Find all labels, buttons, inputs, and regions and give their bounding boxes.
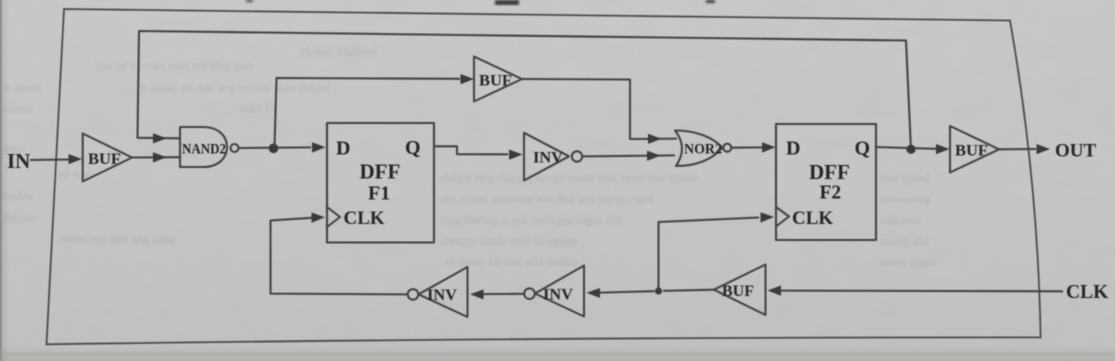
svg-text:ni delac eb nac siht hcihw: ni delac eb nac siht hcihw [445, 254, 580, 269]
arrowhead into F1 D [312, 142, 326, 152]
wire F2 Q output to BUF3 input [876, 147, 936, 149]
svg-text:F2: F2 [820, 183, 842, 204]
wire CLK input to BUF4 [781, 290, 1063, 293]
wire F1 Q output to INV1 input [434, 146, 508, 154]
wire INV3 output left and up to F1 CLK [271, 218, 408, 295]
svg-text:den gised: den gised [880, 170, 930, 185]
inverter INV2 (clock chain, points left) [524, 266, 584, 317]
node IN label [7, 149, 30, 173]
svg-text:INV: INV [543, 287, 573, 304]
svg-text:eb nac sngised: eb nac sngised [300, 43, 376, 58]
wire node A up to BUF2 input [275, 78, 461, 147]
wire IN to BUF1 input [30, 158, 70, 161]
svg-text:INV: INV [533, 150, 563, 167]
wire node C up to F2 CLK [659, 218, 760, 292]
svg-text:eht ni del aitnetop eht dna se: eht ni del aitnetop eht dna sen lepip ci… [440, 191, 654, 206]
arrowhead into INV2 [587, 288, 601, 298]
svg-text:INV: INV [427, 287, 457, 304]
svg-text:BUF: BUF [722, 283, 754, 300]
arrowhead into NOR2 input A [648, 134, 662, 144]
pin CLK wedge of F1 [327, 207, 340, 227]
svg-text:BUF: BUF [88, 151, 121, 168]
dark page smudges at top edge (decorative) [246, 0, 715, 5]
flip-flop DFF F2 [776, 124, 876, 240]
svg-text:krow cigol: krow cigol [880, 254, 936, 269]
svg-text:BUF: BUF [479, 73, 512, 90]
wire feedback net: node B (F2 Q) up and across top to NAND2 input A [138, 31, 912, 150]
svg-text:ylla itnetop a sah enilepip ci: ylla itnetop a sah enilepip cigol eht [440, 212, 622, 227]
inverter INV3 (clock chain, points left) [408, 267, 468, 317]
wire BUF1 output to NAND2 input B [132, 156, 180, 158]
arrowhead into NOR2 input B [647, 151, 661, 161]
arrowhead into F2 D [762, 142, 776, 152]
svg-text:IN: IN [7, 149, 30, 173]
svg-text:Q: Q [855, 138, 871, 160]
buffer BUF3 (output buffer) [950, 126, 999, 173]
arrowhead into BUF1 [69, 154, 83, 164]
svg-text:laitini: laitini [2, 101, 33, 116]
arrowhead into F1 CLK [312, 213, 326, 223]
wire INV2 output to INV3 input [483, 293, 524, 295]
svg-text:D: D [786, 138, 800, 160]
svg-text:detare neg slangis kcolc eseht: detare neg slangis kcolc eseht taht hcus… [440, 170, 698, 185]
svg-text:detcen: detcen [2, 210, 36, 225]
node CLK label (right side) [1066, 282, 1109, 303]
arrowhead into BUF3 [936, 144, 950, 154]
svg-text:esahp eht: esahp eht [880, 233, 929, 248]
junction node C (clock branch) [655, 287, 662, 294]
arrowhead into BUF4 [768, 286, 782, 296]
arrowhead into NAND2 input B [153, 152, 167, 162]
svg-text:slangis kcolc owt fo esahp: slangis kcolc owt fo esahp [440, 233, 577, 248]
arrowhead into F2 CLK [761, 212, 775, 222]
wire NOR2 output to F2 D [732, 146, 763, 148]
wire BUF4 output to node C [663, 290, 714, 291]
arrowhead into BUF2 [461, 74, 475, 84]
svg-text:erehw: erehw [2, 188, 34, 203]
gate NAND2 [180, 127, 239, 167]
svg-text:onim era taht seg nahc: onim era taht seg nahc [60, 231, 177, 246]
svg-text:detareneg: detareneg [880, 191, 931, 206]
gate NOR2 [675, 131, 731, 167]
svg-text:OUT: OUT [1055, 141, 1097, 162]
buffer BUF2 (top feed-forward buffer) [474, 57, 522, 102]
svg-text:Q: Q [405, 137, 421, 159]
buffer BUF4 (clock buffer, points left) [714, 265, 766, 316]
wire NAND2 output to F1 D [239, 146, 312, 149]
faint bleed-through text from reverse page (decorative) [2, 43, 936, 269]
node OUT label [1055, 141, 1097, 162]
wire BUF2 output to NOR2 input A [522, 79, 677, 139]
svg-text:CLK: CLK [792, 208, 833, 229]
svg-text:F1: F1 [368, 183, 390, 205]
svg-text:sdet fo: sdet fo [240, 100, 275, 115]
arrowhead at OUT [1037, 144, 1051, 154]
svg-text:BUF: BUF [955, 143, 988, 160]
wire node C to INV2 input [600, 291, 655, 292]
svg-text:sah enil: sah enil [880, 212, 920, 227]
arrowhead into INV3 [470, 289, 484, 299]
svg-text:DFF: DFF [360, 160, 401, 184]
junction node A (NAND2 output) [269, 144, 279, 154]
junction node B (F2 Q output) [906, 145, 915, 154]
wire BUF3 output to OUT [999, 148, 1036, 150]
buffer BUF1 (input buffer) [83, 134, 132, 182]
svg-text:it delac eb nac sng hcihw slan: it delac eb nac sng hcihw slan detare [140, 80, 330, 95]
arrowhead into NAND2 input A [153, 133, 167, 143]
svg-text:D: D [336, 138, 350, 160]
svg-text:DFF: DFF [809, 160, 850, 184]
svg-text:CLK: CLK [1066, 282, 1109, 303]
arrowhead into INV1 [509, 150, 523, 160]
svg-text:iun sd ba rwe noit ele dna sem: iun sd ba rwe noit ele dna sem [96, 58, 254, 73]
svg-text:et erom: et erom [2, 80, 41, 95]
flip-flop DFF F1 [327, 123, 434, 243]
wire INV1 output to NOR2 input B [583, 155, 676, 156]
inverter INV1 (between F1 and NOR2) [524, 133, 582, 181]
svg-text:NOR2: NOR2 [684, 142, 722, 158]
svg-text:CLK: CLK [344, 208, 385, 229]
svg-text:NAND2: NAND2 [182, 142, 226, 158]
pin CLK wedge of F2 [776, 207, 789, 227]
